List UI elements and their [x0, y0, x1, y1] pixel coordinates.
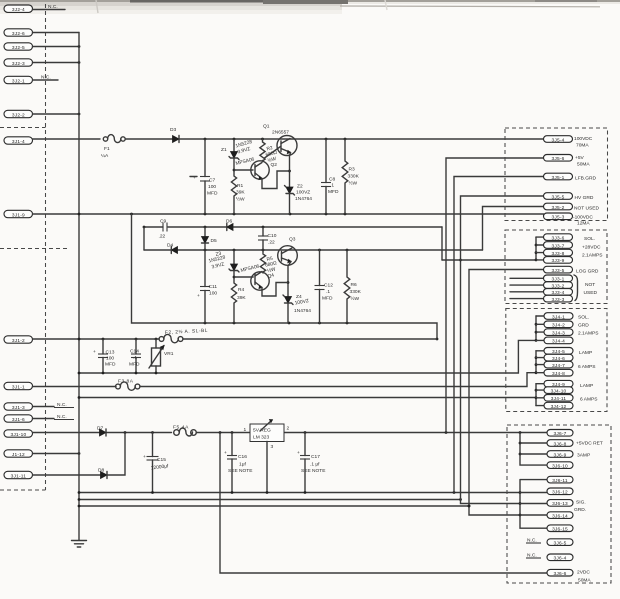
connector pin 3J3-3 — [510, 295, 573, 303]
connector box 3J5 (dashed) — [505, 128, 608, 221]
wire 3J1-10 row y=432.5 (+5V, to 3J6-7) — [33, 431, 548, 434]
fuse F2 2.5A SL-BL — [159, 327, 208, 343]
wire 3J1-2 row y=339 — [33, 338, 438, 341]
svg-text:3J4-12: 3J4-12 — [551, 404, 567, 410]
resistor R6 330K 1/2W — [344, 250, 361, 323]
diode D4 — [167, 243, 178, 254]
svg-text:12MA: 12MA — [577, 221, 590, 227]
svg-text:½W: ½W — [236, 196, 245, 203]
svg-text:100VDC: 100VDC — [574, 136, 593, 142]
ground bus wire (vertical, x=79) — [78, 33, 80, 541]
wire 3J1-11 row y=475 + riser to y=432.5 — [33, 433, 126, 476]
wire 3J4 group2 vertical x=536 — [535, 351, 544, 374]
connector pin 3J4-4 — [544, 337, 573, 345]
connector pin 3J4-8 — [544, 369, 573, 377]
diode D8 — [98, 468, 107, 479]
svg-text:3J4-8: 3J4-8 — [552, 371, 565, 377]
capacitor C15 12000uF — [143, 433, 169, 493]
svg-text:3J4-11: 3J4-11 — [551, 396, 567, 402]
svg-text:C15: C15 — [157, 457, 166, 463]
connector pin 3J2-4 — [4, 4, 65, 13]
connector pin 3J6-12 — [547, 488, 573, 496]
svg-text:.1: .1 — [133, 355, 137, 361]
capacitor C10 .22 — [258, 227, 277, 250]
zener Z2 100VZ 1N4764 — [285, 184, 313, 203]
svg-text:¼A: ¼A — [101, 153, 109, 159]
varistor VR1 — [149, 339, 174, 373]
svg-text:3J3-8: 3J3-8 — [552, 251, 565, 257]
svg-text:C7: C7 — [209, 178, 215, 184]
svg-text:C9: C9 — [160, 219, 166, 225]
svg-text:100: 100 — [208, 184, 216, 190]
wire 3J1-4 rail y=139 (100VDC rail to 3J5-4) — [33, 138, 101, 140]
svg-text:Z2: Z2 — [297, 184, 303, 190]
svg-text:.22: .22 — [268, 240, 275, 246]
connector pin 3J5-4 — [544, 136, 593, 149]
svg-text:3J3-9: 3J3-9 — [552, 258, 565, 264]
svg-text:+28VDC: +28VDC — [582, 245, 601, 251]
svg-text:100VZ: 100VZ — [296, 190, 310, 196]
connector box 3J6 (dashed) — [507, 425, 611, 583]
svg-text:Q3: Q3 — [289, 237, 296, 243]
svg-text:3J1-1: 3J1-1 — [12, 384, 25, 390]
connector pin 3J1-3 — [4, 402, 74, 411]
connector pin 3J4-9 — [544, 380, 593, 389]
svg-text:HV GRD: HV GRD — [575, 195, 594, 201]
connector pin 3J6-6 — [547, 569, 591, 583]
wire 3J4 group3 vertical x=536 — [535, 384, 544, 406]
svg-text:3J6-5: 3J6-5 — [554, 540, 567, 546]
svg-text:J1-12: J1-12 — [12, 452, 25, 458]
svg-text:3J2-4: 3J2-4 — [12, 7, 25, 13]
svg-text:+: + — [197, 294, 200, 299]
svg-text:F5 4A: F5 4A — [173, 425, 189, 431]
svg-text:SEE NOTE: SEE NOTE — [228, 468, 253, 474]
wire 3J1-9 rail y=214 (to 3J5-3) — [33, 213, 544, 215]
svg-text:3J2-1: 3J2-1 — [12, 78, 25, 84]
connector pin 3J3-7 — [544, 242, 601, 251]
svg-text:3J6-14: 3J6-14 — [552, 513, 568, 519]
transistor Q3 — [278, 237, 298, 266]
svg-text:3J5-2: 3J5-2 — [552, 205, 565, 211]
connector pin 3J6-13 — [547, 500, 586, 514]
wire riser x=144 (227 to 250) — [143, 227, 145, 250]
svg-text:3J4-7: 3J4-7 — [552, 363, 565, 369]
connector pin 3J4-2 — [544, 321, 589, 329]
connector pin 3J6-10 — [547, 462, 573, 470]
wire Q3 emitter to Z4 — [287, 262, 291, 324]
svg-text:C13: C13 — [106, 350, 115, 356]
wire LOG GRD feed y=269.5 to 3J3-5, riser x=469 down to 3J6-14 — [468, 270, 544, 516]
wire 3J3 feed vertical x=536 — [535, 237, 544, 261]
wire 3J6 group1 vertical x=520 — [519, 433, 547, 466]
connector pin 3J6-5 — [526, 538, 573, 547]
svg-text:3J6-11: 3J6-11 — [552, 478, 568, 484]
capacitor C7 100MFD — [190, 139, 218, 214]
svg-text:3J6-15: 3J6-15 — [552, 527, 568, 533]
connector pin 3J4-12 — [544, 402, 573, 410]
svg-text:½W: ½W — [351, 295, 360, 302]
connector pin 3J4-6 — [544, 354, 573, 362]
connector pin 3J4-10 — [544, 387, 573, 395]
regulator U1 LM323 5V REG — [244, 420, 290, 493]
connector pin 3J4-11 — [544, 395, 598, 403]
svg-text:3AMP: 3AMP — [577, 453, 590, 459]
wire +28V feed y=260 to 3J3 — [442, 259, 536, 261]
svg-text:MFD: MFD — [322, 296, 333, 302]
wire +5V feeder x=446 (3J5-6 to reg output) — [446, 158, 544, 433]
svg-text:100: 100 — [106, 356, 114, 362]
connector pin 3J1-1 — [4, 382, 33, 390]
wire ground rail y=492.5 (to 3J6-12) — [78, 491, 520, 494]
diode D5 — [202, 227, 217, 250]
transistor Q2 — [234, 156, 277, 179]
connector pin 3J2-3 — [4, 59, 80, 67]
svg-text:3J1-6: 3J1-6 — [12, 417, 25, 423]
svg-text:+: + — [93, 350, 96, 355]
resistor R2 680 ohm — [260, 139, 278, 164]
connector pin 3J4-3 — [544, 329, 599, 337]
connector pin 3J4-7 — [544, 361, 596, 370]
capacitor C17 .1uF — [297, 433, 326, 493]
not-used bracket — [574, 275, 597, 301]
svg-text:3J4-3: 3J4-3 — [552, 330, 565, 336]
zener Z1 — [221, 139, 253, 170]
svg-text:NOT USED: NOT USED — [574, 206, 599, 212]
svg-text:3J5-1: 3J5-1 — [552, 175, 565, 181]
connector pin 3J6-7 — [547, 430, 573, 438]
svg-text:3J2-5: 3J2-5 — [12, 45, 25, 51]
svg-text:.22: .22 — [159, 234, 166, 240]
svg-text:3J4-1: 3J4-1 — [552, 314, 565, 320]
wire HV GRD feeder x=460.5 (3J5-5 down to 3J6-13) — [459, 196, 543, 504]
svg-text:1: 1 — [244, 427, 247, 433]
svg-text:D3: D3 — [170, 127, 176, 133]
connector pin 3J1-11 — [4, 471, 33, 479]
svg-text:3J6-7: 3J6-7 — [554, 431, 567, 437]
svg-text:-100VDC: -100VDC — [573, 215, 593, 221]
connector pin 3J3-4 — [510, 289, 573, 297]
connector pin 3J2-2 — [4, 110, 80, 118]
connector pin 3J6-15 — [547, 525, 573, 533]
connector pin 3J3-5 — [544, 266, 599, 274]
svg-text:C8: C8 — [329, 177, 335, 183]
svg-text:VR1: VR1 — [164, 351, 174, 357]
svg-text:50MA: 50MA — [577, 162, 590, 168]
diode D6 — [226, 219, 233, 231]
svg-text:3J2-6: 3J2-6 — [12, 31, 25, 37]
capacitor C9 .22 — [159, 219, 168, 240]
svg-text:Q1: Q1 — [263, 124, 270, 130]
svg-text:2: 2 — [287, 426, 290, 432]
capacitor C14 .1 MFD — [129, 339, 141, 373]
svg-text:LFB.GRD: LFB.GRD — [575, 176, 596, 182]
svg-text:1N4764: 1N4764 — [295, 196, 312, 202]
svg-text:R4: R4 — [238, 287, 244, 293]
svg-text:½W: ½W — [349, 180, 358, 187]
svg-text:3J6-13: 3J6-13 — [552, 501, 568, 507]
svg-text:LM 323: LM 323 — [253, 435, 269, 441]
connector pin 3J6-9 — [547, 451, 590, 459]
connector pin 3J4-1 — [544, 313, 589, 321]
svg-text:3J3-3: 3J3-3 — [552, 297, 565, 303]
svg-text:SOL.: SOL. — [584, 236, 595, 242]
svg-text:GRD: GRD — [578, 323, 589, 329]
svg-text:3J6-6: 3J6-6 — [554, 571, 567, 577]
wire lower rail y=323 — [132, 214, 439, 340]
capacitor C16 1uF — [224, 433, 253, 493]
svg-text:1N4764: 1N4764 — [294, 308, 311, 314]
connector pin 3J5-2 — [544, 203, 600, 211]
resistor R1 39K 1/2W — [231, 169, 245, 214]
svg-text:C17: C17 — [311, 454, 320, 460]
connector box 3J4 (dashed) — [506, 309, 607, 412]
connector pin 3J1-9 — [4, 210, 33, 218]
diode D7 — [97, 426, 106, 437]
svg-text:3J1-4: 3J1-4 — [12, 139, 25, 145]
capacitor C13 100MFD — [93, 339, 116, 373]
svg-text:.1: .1 — [330, 183, 334, 189]
svg-text:D4: D4 — [167, 243, 173, 249]
wire rail y=499.5 (to 3J6-13) — [78, 498, 462, 501]
connector pin 3J2-1 — [4, 75, 58, 85]
svg-text:39K: 39K — [236, 190, 245, 196]
ground — [72, 541, 87, 548]
zener Z4 100VZ 1N4764 — [283, 294, 311, 314]
wire 3J5-2 feeder x=482.5 from -100V rail — [483, 207, 544, 251]
svg-text:3J6-10: 3J6-10 — [552, 463, 568, 469]
svg-text:MFD: MFD — [129, 362, 140, 368]
svg-text:70MA: 70MA — [576, 143, 589, 149]
svg-text:3J1-2: 3J1-2 — [12, 338, 25, 344]
connector pin 3J1-4 — [4, 137, 33, 145]
connector pin 3J3-9 — [544, 257, 573, 265]
svg-text:F1: F1 — [104, 146, 110, 152]
svg-text:SEE NOTE: SEE NOTE — [301, 468, 326, 474]
svg-text:3J4-2: 3J4-2 — [552, 323, 565, 329]
wire 3J1-1 row y=386.5 (to 3J4-8) — [33, 373, 537, 387]
resistor R3 330K 1/2W — [342, 139, 359, 214]
svg-text:39K: 39K — [237, 295, 246, 301]
svg-text:C10: C10 — [268, 233, 277, 239]
svg-text:N.C.: N.C. — [57, 414, 67, 420]
svg-text:.1 μf: .1 μf — [310, 462, 320, 468]
svg-text:.1: .1 — [326, 289, 330, 295]
connector pin 3J1-10 — [4, 430, 33, 438]
svg-text:3J6-8: 3J6-8 — [554, 441, 567, 447]
svg-text:3J3-5: 3J3-5 — [552, 268, 565, 274]
svg-text:3J4-10: 3J4-10 — [551, 388, 567, 394]
connector pin 3J1-6 — [4, 414, 74, 423]
svg-text:N.C.: N.C. — [41, 75, 51, 81]
svg-text:1μf: 1μf — [239, 462, 246, 468]
fuse F3 8A — [116, 379, 140, 391]
svg-text:R1: R1 — [237, 183, 243, 189]
svg-text:2.1AMPS: 2.1AMPS — [582, 253, 603, 259]
svg-text:3J3-7: 3J3-7 — [552, 243, 565, 249]
svg-text:3J6-12: 3J6-12 — [552, 490, 568, 496]
svg-text:3J5-3: 3J5-3 — [552, 215, 565, 221]
svg-text:3: 3 — [271, 444, 274, 450]
svg-text:+5V: +5V — [575, 155, 585, 161]
svg-text:MFD: MFD — [207, 191, 218, 197]
wire 3J4 group1 vertical x=536 — [535, 316, 544, 342]
svg-text:3J4-4: 3J4-4 — [552, 339, 565, 345]
svg-text:2N6557: 2N6557 — [272, 130, 289, 136]
svg-text:330K: 330K — [350, 289, 362, 295]
svg-text:LAMP: LAMP — [580, 383, 593, 389]
svg-text:3J1-10: 3J1-10 — [10, 432, 26, 438]
svg-text:C14: C14 — [130, 349, 139, 355]
wire +5V sense to 3J6-6 (x=220 riser, y=573) — [220, 433, 547, 574]
left connector dash frame — [45, 4, 47, 490]
wire LFB GRD feeder x=454 (3J5-1 to gnd rail) — [454, 177, 544, 493]
connector pin 3J2-6 — [4, 29, 79, 37]
capacitor C11 100 — [197, 250, 217, 323]
svg-text:N.C.: N.C. — [57, 402, 67, 408]
svg-text:3J3-6: 3J3-6 — [552, 235, 565, 241]
svg-text:N.C.: N.C. — [48, 4, 58, 10]
svg-text:MFD: MFD — [105, 362, 116, 368]
svg-text:330K: 330K — [348, 174, 360, 180]
svg-text:3J2-3: 3J2-3 — [12, 61, 25, 67]
connector pin 3J5-1 — [544, 173, 597, 181]
svg-text:MFD: MFD — [328, 189, 339, 195]
connector pin 3J3-6 — [544, 234, 596, 242]
svg-text:+: + — [297, 451, 300, 456]
svg-text:C11: C11 — [209, 284, 218, 290]
connector pin 3J4-5 — [544, 348, 592, 357]
connector pin 3J6-11 — [547, 476, 573, 484]
svg-text:+: + — [143, 455, 146, 460]
svg-text:3J6-4: 3J6-4 — [554, 556, 567, 562]
resistor R4 39K — [231, 276, 246, 323]
connector pin 3J6-8 — [547, 440, 603, 448]
zener Z3 — [208, 250, 239, 277]
svg-text:3J2-2: 3J2-2 — [12, 112, 25, 118]
svg-text:R6: R6 — [351, 282, 357, 288]
wire clamp rail y=227 — [143, 226, 442, 260]
connector pin 3J5-5 — [544, 193, 594, 201]
connector pin 3J6-4 — [526, 553, 573, 562]
svg-text:D5: D5 — [211, 238, 217, 244]
svg-text:SIG.: SIG. — [576, 500, 586, 506]
svg-text:LAMP: LAMP — [579, 350, 592, 356]
fuse F1 1/4A — [101, 135, 125, 159]
connector pin 3J3-2 — [510, 282, 573, 290]
svg-text:2.1AMPS: 2.1AMPS — [578, 331, 599, 337]
svg-text:NOT: NOT — [585, 282, 595, 288]
capacitor C12 .1 MFD — [315, 250, 334, 323]
connector pin 3J5-3 — [544, 213, 594, 227]
connector pin 3J3-8 — [544, 249, 604, 258]
svg-text:F3 8A: F3 8A — [118, 379, 134, 385]
wire Q1 emitter to Z2 — [288, 153, 291, 215]
svg-text:6 AMPS: 6 AMPS — [580, 397, 598, 403]
svg-text:3J1-9: 3J1-9 — [12, 212, 25, 218]
svg-text:6 AMPS: 6 AMPS — [578, 364, 596, 370]
svg-text:2VDC: 2VDC — [577, 570, 590, 576]
wire rail y=397.5 (to 3J4-11) — [78, 396, 536, 399]
svg-text:3J1-11: 3J1-11 — [11, 473, 27, 479]
svg-text:Z4: Z4 — [296, 294, 302, 300]
diode D3 — [170, 127, 179, 143]
wire -100V rail y=250 (to 3J5-2 riser) — [144, 249, 483, 252]
svg-text:R3: R3 — [349, 167, 355, 173]
svg-text:+: + — [224, 451, 227, 456]
resistor R5 680 ohm — [260, 250, 277, 280]
wire Q2 emitter L-path — [262, 171, 290, 189]
capacitor C8 .1 MFD — [321, 139, 339, 214]
connector box 3J3 (dashed) — [505, 230, 607, 304]
svg-text:C12: C12 — [324, 283, 333, 289]
svg-text:3J6-9: 3J6-9 — [554, 452, 567, 458]
wire 3J6 group2 vertical x=520 — [519, 480, 547, 529]
svg-text:3J5-6: 3J5-6 — [552, 156, 565, 162]
svg-text:3J5-5: 3J5-5 — [552, 194, 565, 200]
svg-text:50MA: 50MA — [578, 578, 591, 584]
connector pin 3J6-14 — [547, 512, 573, 520]
fuse F5 4A — [173, 425, 196, 437]
connector pin 3J1-2 — [4, 336, 33, 344]
svg-text:LOG GRD: LOG GRD — [576, 269, 599, 275]
svg-text:GRD.: GRD. — [574, 507, 586, 513]
svg-text:Z1: Z1 — [221, 147, 227, 153]
connector pin 3J3-1 — [510, 275, 573, 283]
transistor Q1 2N6557 — [263, 124, 297, 159]
connector pin J1-12 — [4, 450, 80, 458]
svg-text:SOL.: SOL. — [578, 315, 589, 321]
svg-text:C16: C16 — [238, 454, 247, 460]
svg-text:USED: USED — [584, 290, 598, 296]
svg-text:3J1-3: 3J1-3 — [12, 405, 25, 411]
svg-text:+5VDC RET: +5VDC RET — [576, 441, 603, 447]
wire rail y=373 (to 3J4-4) — [78, 340, 536, 374]
connector pin 3J5-6 — [544, 155, 591, 168]
wire rail y=506 (to 3J6-14) — [78, 505, 471, 508]
transistor Q4 — [234, 263, 269, 290]
wire Q4 emitter L-path — [262, 283, 288, 297]
svg-text:3J5-4: 3J5-4 — [552, 137, 565, 143]
svg-text:100: 100 — [209, 291, 217, 297]
connector pin 3J2-5 — [4, 43, 80, 51]
